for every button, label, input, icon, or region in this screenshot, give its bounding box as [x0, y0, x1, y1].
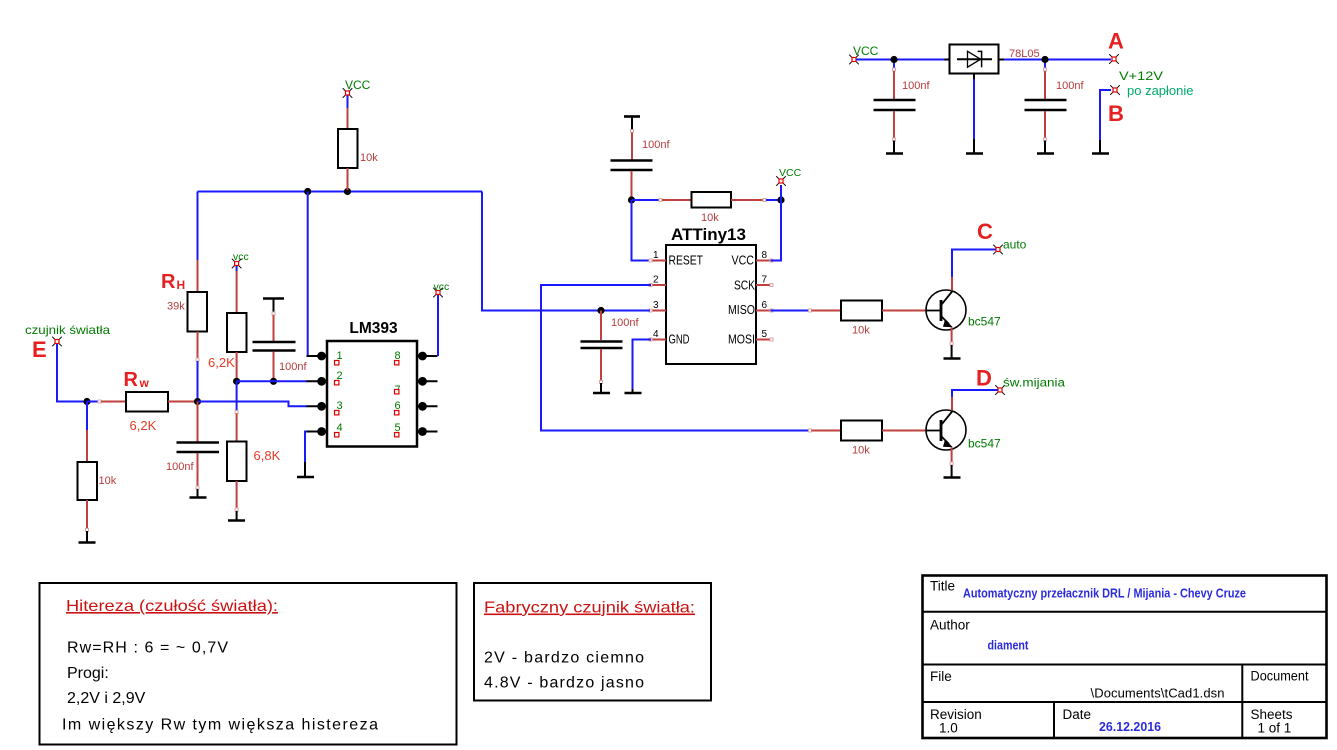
- wire 6,8K up to pin2 node (crossover): [235, 381, 238, 413]
- ground under LM393 pin4: [297, 462, 314, 477]
- svg-text:2V - bardzo ciemno: 2V - bardzo ciemno: [484, 650, 644, 667]
- title block Sheets: [1251, 707, 1293, 736]
- svg-text:6,8K: 6,8K: [254, 448, 281, 463]
- svg-text:100nf: 100nf: [166, 461, 194, 473]
- title block Author: [930, 618, 1029, 653]
- node D sw.mijania: [976, 366, 1065, 395]
- transistor Q2 bc547: [926, 410, 1001, 451]
- svg-text:100nf: 100nf: [611, 317, 639, 329]
- junction dot at C2 top: [1041, 56, 1048, 63]
- svg-text:w: w: [139, 376, 150, 390]
- svg-text:VCC: VCC: [853, 44, 879, 58]
- svg-text:VCC: VCC: [779, 167, 802, 179]
- svg-text:H: H: [177, 278, 186, 292]
- wire pin 8 to VCC junction: [771, 200, 782, 261]
- wire resistor to VCC: [731, 199, 781, 202]
- svg-text:1.0: 1.0: [939, 721, 958, 736]
- wire LM393 pin4 to ground: [305, 432, 307, 463]
- svg-text:vcc: vcc: [434, 281, 450, 293]
- svg-text:10k: 10k: [701, 212, 719, 224]
- junction dot Rw-RH node: [194, 398, 201, 405]
- svg-text:100nf: 100nf: [279, 361, 307, 373]
- ground under Q1: [944, 345, 961, 359]
- capacitor C4 100nf: [581, 311, 640, 384]
- svg-text:10k: 10k: [852, 445, 870, 457]
- resistor R2 10k (lower left): [78, 402, 117, 532]
- resistor RH 39k: [161, 260, 207, 361]
- svg-text:MISO: MISO: [728, 303, 755, 317]
- node V+12V po zaplonie (pin B): [1108, 69, 1194, 126]
- svg-text:Hitereza (czułość światła):: Hitereza (czułość światła):: [66, 598, 278, 615]
- svg-text:7: 7: [762, 275, 768, 286]
- capacitor C2 100nf: [1025, 63, 1085, 141]
- svg-text:10k: 10k: [99, 475, 117, 487]
- svg-text:100nf: 100nf: [902, 80, 930, 92]
- note box hysteresis: [40, 583, 457, 745]
- ground under C4: [593, 383, 610, 393]
- node VCC above top 10k: [343, 78, 371, 108]
- wire Rw node to LM393 pin 3: [198, 402, 308, 407]
- svg-text:GND: GND: [669, 333, 690, 347]
- svg-text:Fabryczny czujnik światła:: Fabryczny czujnik światła:: [484, 600, 695, 617]
- svg-text:1 of 1: 1 of 1: [1258, 721, 1292, 736]
- wire pin2 node to LM393 pin 2: [237, 380, 307, 382]
- svg-text:100nf: 100nf: [642, 139, 670, 151]
- svg-text:Automatyczny przełacznik DRL /: Automatyczny przełacznik DRL / Mijania -…: [963, 587, 1246, 601]
- pin 7 SCK: [734, 275, 773, 293]
- wire main vcc rail: [198, 191, 483, 193]
- svg-text:\Documents\tCad1.dsn: \Documents\tCad1.dsn: [1091, 686, 1225, 701]
- svg-text:MOSI: MOSI: [728, 333, 755, 347]
- svg-text:6,2K: 6,2K: [208, 355, 235, 370]
- ground under Q2: [944, 465, 961, 478]
- title block Title: [930, 579, 1246, 601]
- ground under 78L05: [966, 139, 983, 154]
- svg-text:V+12V: V+12V: [1119, 69, 1163, 83]
- capacitor C1 100nf: [874, 63, 931, 141]
- svg-text:B: B: [1108, 101, 1124, 126]
- svg-text:R: R: [161, 271, 176, 293]
- LM393 pin 8: [395, 350, 438, 365]
- ground under C6: [190, 489, 207, 498]
- wire pin 2 to lower transistor net: [541, 285, 809, 431]
- pin 6 MISO: [728, 300, 773, 317]
- wire 78L05 ground pin: [973, 74, 975, 140]
- wire Q1 emitter to ground: [950, 328, 953, 346]
- svg-text:26.12.2016: 26.12.2016: [1099, 719, 1161, 734]
- junction dot at C4: [597, 307, 604, 314]
- resistor R8 10k (Q2 base): [841, 421, 927, 457]
- transistor Q1 bc547: [926, 290, 1001, 330]
- svg-text:Im większy Rw tym większa hist: Im większy Rw tym większa histereza: [62, 717, 378, 734]
- wire reset node down to pin 1: [632, 200, 652, 261]
- svg-text:6: 6: [762, 300, 768, 311]
- pin 5 MOSI: [728, 329, 773, 347]
- resistor R7 10k (Q1 base): [841, 301, 927, 337]
- svg-text:D: D: [976, 366, 992, 391]
- wire pin2 net to Q2 base resistor: [809, 429, 842, 432]
- ground under pin 4: [625, 389, 642, 393]
- LM393 pin 7: [395, 377, 438, 396]
- IC U1 ATTiny13 body: [666, 225, 756, 364]
- junction dot pin1 branch: [304, 188, 311, 195]
- node C auto: [977, 219, 1027, 254]
- ground under C2: [1037, 141, 1054, 154]
- pin 1 RESET: [649, 250, 703, 268]
- LM393 pin 2: [307, 370, 343, 386]
- capacitor C6 100nf (bottom left): [166, 402, 219, 490]
- svg-text:auto: auto: [1003, 238, 1027, 252]
- pin 8 VCC: [732, 250, 774, 268]
- LM393 pin 1: [307, 350, 343, 365]
- wire MISO to base resistor: [771, 309, 842, 312]
- svg-text:bc547: bc547: [968, 437, 1001, 451]
- regulator U2 78L05 body: [950, 45, 999, 74]
- node vcc above 6,2K vertical: [232, 251, 249, 271]
- junction dot at C1 top: [890, 56, 897, 63]
- svg-text:po zapłonie: po zapłonie: [1127, 83, 1194, 98]
- svg-text:A: A: [1108, 29, 1124, 54]
- svg-text:VCC: VCC: [345, 78, 371, 92]
- wire Q1 collector to node C: [952, 250, 996, 291]
- note box factory sensor: [474, 583, 711, 701]
- svg-text:diament: diament: [988, 638, 1030, 653]
- svg-text:C: C: [977, 219, 993, 244]
- title block File: [930, 669, 1225, 701]
- wire pin 3 net from comparator: [482, 192, 650, 311]
- svg-text:10k: 10k: [360, 152, 378, 164]
- resistor R5 10k (reset pull-up): [692, 192, 732, 224]
- wire Q2 collector to node D: [952, 390, 998, 411]
- junction dot under vcc pin: [777, 196, 784, 203]
- resistor R4 10k (top): [338, 108, 378, 190]
- svg-text:100nf: 100nf: [1056, 80, 1084, 92]
- ground under 6,8K: [228, 511, 245, 521]
- svg-text:4.8V - bardzo jasno: 4.8V - bardzo jasno: [484, 675, 644, 692]
- title block frame: [923, 576, 1327, 739]
- svg-text:File: File: [930, 669, 952, 684]
- svg-text:LM393: LM393: [349, 320, 398, 337]
- wire stub into regulator: [945, 59, 950, 61]
- pin 3: [649, 300, 666, 312]
- svg-text:Document: Document: [1251, 669, 1309, 684]
- wire RH bottom to Rw node: [197, 361, 199, 402]
- svg-text:1: 1: [653, 250, 659, 261]
- ground under B wire: [1092, 140, 1109, 154]
- resistor Rw 6,2K: [87, 369, 196, 433]
- node E czujnik swiatla: [25, 323, 110, 362]
- resistor R6 6,8K: [227, 414, 281, 512]
- svg-text:6,2K: 6,2K: [130, 418, 157, 433]
- svg-text:Rw=RH : 6 = ~ 0,7V: Rw=RH : 6 = ~ 0,7V: [67, 640, 228, 657]
- pin 2: [649, 275, 666, 287]
- node vcc above LM393 pin 8: [433, 281, 449, 356]
- capacitor C5 100nf: [611, 133, 671, 199]
- LM393 pin 4: [307, 422, 343, 437]
- svg-text:Date: Date: [1063, 707, 1092, 722]
- resistor R3 6,2K (vertical): [208, 271, 247, 379]
- svg-text:10k: 10k: [852, 325, 870, 337]
- svg-text:Author: Author: [930, 618, 970, 633]
- svg-text:3: 3: [653, 300, 659, 311]
- svg-text:św.mijania: św.mijania: [1003, 376, 1065, 390]
- svg-text:Title: Title: [930, 579, 955, 594]
- node VCC (power input pin): [849, 44, 878, 64]
- top rail terminal of C3: [263, 299, 284, 316]
- junction dot at 10k divider: [83, 398, 90, 405]
- wire 78L05 output: [999, 59, 1112, 61]
- wire pin1 rail branch down: [307, 192, 309, 357]
- svg-text:RESET: RESET: [669, 254, 704, 268]
- title block Date: [1063, 707, 1162, 734]
- svg-text:SCK: SCK: [734, 279, 756, 293]
- svg-text:czujnik światła: czujnik światła: [25, 323, 110, 337]
- wire pin 4 to ground: [633, 340, 652, 390]
- node A (output pin): [1108, 29, 1124, 64]
- wire B pin to ground: [1100, 90, 1111, 140]
- svg-text:8: 8: [762, 250, 768, 261]
- top rail terminal of C5: [624, 117, 640, 133]
- svg-text:2: 2: [653, 275, 659, 286]
- svg-text:39k: 39k: [167, 301, 185, 313]
- svg-text:VCC: VCC: [732, 254, 755, 268]
- title block Revision: [930, 707, 982, 736]
- LM393 pin 3: [307, 400, 343, 415]
- pin 4 GND: [649, 329, 690, 347]
- node VCC above ATTiny: [776, 167, 801, 200]
- svg-text:E: E: [32, 337, 47, 362]
- ground under R2: [79, 531, 96, 543]
- junction dot pin2 node right: [270, 378, 277, 385]
- wire E down to divider: [57, 344, 87, 402]
- svg-text:ATTiny13: ATTiny13: [671, 225, 746, 244]
- ground under C1: [886, 141, 903, 154]
- junction dot pin2 node left: [233, 378, 240, 385]
- wire VCC pin to 78L05 input: [856, 59, 945, 61]
- svg-text:bc547: bc547: [968, 315, 1001, 329]
- IC U3 LM393 body: [327, 320, 417, 447]
- LM393 pin 5: [395, 422, 438, 437]
- svg-text:2,2V i 2,9V: 2,2V i 2,9V: [67, 690, 146, 707]
- svg-text:4: 4: [653, 329, 659, 340]
- svg-text:78L05: 78L05: [1009, 48, 1040, 60]
- svg-text:5: 5: [762, 329, 768, 340]
- junction dot 10k branch: [344, 188, 351, 195]
- junction dot reset node: [628, 196, 635, 203]
- LM393 pin 6: [395, 400, 438, 415]
- wire rail to RH: [197, 192, 199, 261]
- wire to reset pullup resistor: [632, 199, 692, 202]
- wire Q2 emitter to ground: [950, 448, 953, 466]
- capacitor C3 100nf: [253, 315, 308, 379]
- svg-text:R: R: [124, 369, 139, 391]
- svg-text:Progi:: Progi:: [67, 665, 109, 682]
